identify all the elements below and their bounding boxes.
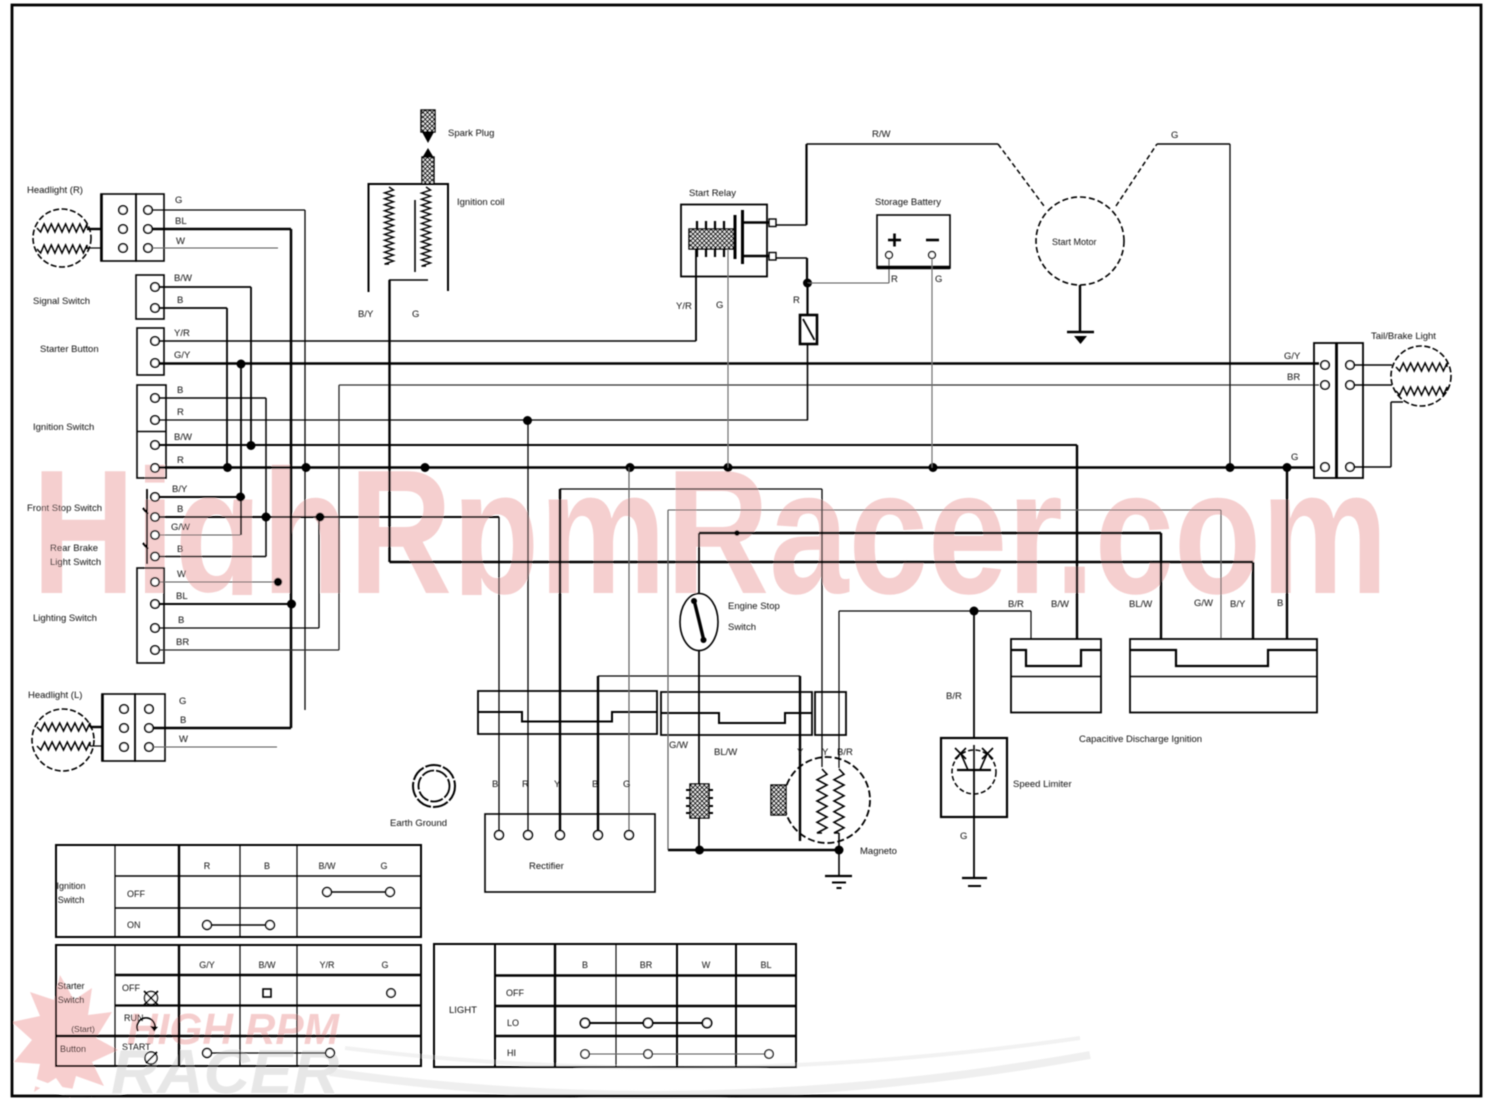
svg-text:R: R xyxy=(891,274,898,285)
wire BL headlight-R xyxy=(152,228,291,231)
ignition switch connector xyxy=(137,385,166,478)
svg-text:Earth Ground: Earth Ground xyxy=(390,818,447,829)
ground bus magneto xyxy=(668,849,839,851)
svg-text:B/W: B/W xyxy=(174,432,192,443)
connector block C xyxy=(815,692,846,735)
svg-text:OFF: OFF xyxy=(122,983,140,993)
svg-text:B: B xyxy=(177,504,183,515)
link ON R-B xyxy=(211,924,266,926)
wire G start motor xyxy=(1157,143,1230,145)
wire R/W start relay to start motor xyxy=(776,224,807,226)
wire tail light right xyxy=(1354,364,1392,366)
svg-text:START: START xyxy=(122,1042,151,1052)
link LO B-BR-W xyxy=(589,1022,703,1024)
svg-text:B/R: B/R xyxy=(946,691,962,702)
svg-text:Ignition Switch: Ignition Switch xyxy=(33,422,94,433)
svg-text:B/W: B/W xyxy=(1051,599,1069,610)
connector headlight (R) xyxy=(101,194,136,261)
svg-text:B: B xyxy=(177,295,183,306)
connector block A xyxy=(478,691,657,734)
ignition coil secondary terminal xyxy=(422,148,434,158)
svg-text:G: G xyxy=(623,779,630,790)
svg-text:B: B xyxy=(180,715,186,726)
svg-text:Storage Battery: Storage Battery xyxy=(875,197,941,208)
table starter switch xyxy=(56,945,421,1066)
svg-text:BL/W: BL/W xyxy=(714,747,737,758)
svg-text:W: W xyxy=(702,960,711,970)
table ignition switch xyxy=(56,845,421,937)
svg-text:B/Y: B/Y xyxy=(358,309,374,320)
svg-text:R: R xyxy=(177,407,184,418)
starter switch START pictogram xyxy=(145,1052,157,1064)
tail light lamp xyxy=(1391,346,1451,406)
connector headlight (L) xyxy=(102,694,135,761)
wire B rectifier to magneto xyxy=(597,676,599,831)
svg-text:B: B xyxy=(492,779,498,790)
svg-text:Rectifier: Rectifier xyxy=(529,861,564,872)
svg-text:G/Y: G/Y xyxy=(1284,351,1301,362)
wire G battery to G bus xyxy=(931,259,933,468)
wire W headlight-R xyxy=(152,247,278,249)
capacitive discharge ignition connector 2 xyxy=(1130,639,1317,713)
svg-text:B/W: B/W xyxy=(319,861,337,871)
svg-text:Rear Brake: Rear Brake xyxy=(50,543,98,554)
headlight (R) lamp xyxy=(33,209,91,267)
svg-text:BL: BL xyxy=(176,591,188,602)
wire Y rectifier to magneto xyxy=(559,489,561,831)
svg-text:B/R: B/R xyxy=(1008,599,1024,610)
svg-text:B/W: B/W xyxy=(259,960,277,970)
wire engine stop to magneto source coil xyxy=(698,651,700,785)
svg-text:G/W: G/W xyxy=(171,522,190,533)
starter button connector xyxy=(137,328,164,375)
wire G/W to CDI xyxy=(667,510,669,850)
wire headlight L to connector xyxy=(90,726,102,728)
wire G speed limiter xyxy=(973,817,975,878)
fuse R xyxy=(806,283,808,315)
wire B front stop to rectifier xyxy=(159,516,499,518)
wire G/W front stop xyxy=(159,534,241,536)
link START G/Y-Y/R xyxy=(211,1052,326,1054)
start motor xyxy=(1036,197,1124,285)
svg-text:G/Y: G/Y xyxy=(199,960,215,970)
spark plug xyxy=(421,110,435,132)
svg-text:ON: ON xyxy=(127,920,141,930)
wire Y/R to start relay xyxy=(159,340,696,342)
svg-text:Switch: Switch xyxy=(728,622,756,633)
svg-text:R: R xyxy=(177,455,184,466)
svg-text:B: B xyxy=(178,615,184,626)
svg-text:Starter: Starter xyxy=(57,981,84,991)
wire G relay coil lead xyxy=(727,249,729,468)
wire G rectifier to G bus xyxy=(628,468,630,831)
tail light connector xyxy=(1314,343,1336,478)
svg-text:G/W: G/W xyxy=(669,740,688,751)
starter switch RUN pictogram xyxy=(137,1018,155,1031)
starter switch OFF pictogram xyxy=(145,992,158,1005)
signal switch connector xyxy=(136,275,164,319)
watermark HighRpmRacer.com xyxy=(32,433,1388,631)
wire B front-stop to rectifier xyxy=(498,517,500,831)
svg-text:B: B xyxy=(177,544,183,555)
capacitive discharge ignition connector 1 xyxy=(1011,639,1101,713)
svg-text:Start Relay: Start Relay xyxy=(689,188,736,199)
svg-text:Capacitive Discharge Ignition: Capacitive Discharge Ignition xyxy=(1079,734,1202,745)
svg-text:Start Motor: Start Motor xyxy=(1052,237,1097,247)
svg-text:B: B xyxy=(592,779,598,790)
svg-text:W: W xyxy=(177,569,186,580)
svg-text:Button: Button xyxy=(60,1044,86,1054)
svg-text:Y/R: Y/R xyxy=(676,301,692,312)
wire B/R magneto to CDI xyxy=(838,611,840,768)
svg-text:Ignition coil: Ignition coil xyxy=(457,197,505,208)
wire B signal switch xyxy=(159,307,227,309)
svg-text:G: G xyxy=(1291,452,1298,463)
svg-text:R: R xyxy=(793,295,800,306)
svg-text:OFF: OFF xyxy=(506,988,524,998)
svg-text:BL: BL xyxy=(175,216,187,227)
starter switch OFF marks xyxy=(263,989,271,997)
speed limiter xyxy=(941,738,1007,817)
magneto source coil BL/W xyxy=(690,784,709,818)
magneto xyxy=(784,757,870,843)
svg-text:G/Y: G/Y xyxy=(174,350,191,361)
svg-text:Starter Button: Starter Button xyxy=(40,344,99,355)
wire B/R to speed limiter xyxy=(973,611,975,738)
wire B/W signal switch xyxy=(159,286,251,288)
svg-text:Signal Switch: Signal Switch xyxy=(33,296,90,307)
svg-text:G: G xyxy=(380,861,387,871)
wire B/Y ignition coil primary to CDI xyxy=(388,280,390,562)
svg-text:Tail/Brake Light: Tail/Brake Light xyxy=(1371,331,1436,342)
wire BL/W engine stop to CDI xyxy=(698,533,700,594)
wire G bus xyxy=(159,466,1315,468)
svg-text:G: G xyxy=(716,300,723,311)
svg-text:G: G xyxy=(935,274,942,285)
earth ground xyxy=(413,765,455,807)
svg-text:BR: BR xyxy=(176,637,189,648)
svg-text:W: W xyxy=(179,734,188,745)
svg-text:Headlight (R): Headlight (R) xyxy=(27,185,83,196)
svg-text:Magneto: Magneto xyxy=(860,846,897,857)
watermark swoosh xyxy=(330,1055,1090,1095)
svg-text:G/W: G/W xyxy=(1194,598,1213,609)
headlight (L) lamp xyxy=(32,709,94,771)
wire B/Y front stop xyxy=(159,496,241,498)
svg-text:RUN: RUN xyxy=(124,1013,144,1023)
wire B rear brake xyxy=(159,556,266,558)
wire start relay output to battery xyxy=(776,257,807,259)
svg-text:Switch: Switch xyxy=(58,895,85,905)
svg-text:BL/W: BL/W xyxy=(1129,599,1152,610)
svg-text:Front Stop Switch: Front Stop Switch xyxy=(27,503,102,514)
storage battery xyxy=(877,215,950,268)
svg-text:LIGHT: LIGHT xyxy=(449,1005,477,1016)
svg-text:Ignition: Ignition xyxy=(56,881,85,891)
svg-text:Y/R: Y/R xyxy=(319,960,335,970)
svg-text:(Start): (Start) xyxy=(71,1024,95,1034)
svg-text:R/W: R/W xyxy=(872,129,891,140)
ground start motor xyxy=(1079,285,1081,332)
svg-text:Spark Plug: Spark Plug xyxy=(448,128,494,139)
svg-text:BR: BR xyxy=(1287,372,1300,383)
connector block B xyxy=(661,692,812,735)
wire headlight R to connector xyxy=(87,228,101,230)
svg-text:B/Y: B/Y xyxy=(1230,599,1246,610)
svg-text:HI: HI xyxy=(507,1048,516,1058)
wire R line to fuse xyxy=(159,419,808,421)
wire Y/R relay coil lead xyxy=(695,249,697,341)
lighting switch connector xyxy=(137,568,164,663)
svg-text:Y: Y xyxy=(822,747,829,758)
svg-text:B/Y: B/Y xyxy=(172,484,188,495)
svg-text:B: B xyxy=(264,861,270,871)
svg-text:Speed Limiter: Speed Limiter xyxy=(1013,779,1072,790)
svg-text:BL: BL xyxy=(760,960,771,970)
svg-text:G: G xyxy=(1171,130,1178,141)
svg-text:B: B xyxy=(1277,598,1283,609)
wire W lighting switch xyxy=(159,581,278,583)
wire ignition B to front stop B xyxy=(159,397,266,399)
wire G headlight-R xyxy=(152,209,305,211)
svg-text:Y: Y xyxy=(554,779,561,790)
svg-text:G: G xyxy=(381,960,388,970)
wire R fuse to ignition switch xyxy=(807,344,809,420)
wire G/Y bus xyxy=(159,362,1319,365)
svg-text:LO: LO xyxy=(507,1018,519,1028)
wire B lighting switch xyxy=(159,627,319,629)
table light xyxy=(434,944,796,1067)
wire B headlight-L xyxy=(153,727,291,730)
start relay xyxy=(681,205,767,277)
wire BL lighting switch xyxy=(159,603,292,605)
svg-text:B: B xyxy=(582,960,588,970)
svg-text:Lighting Switch: Lighting Switch xyxy=(33,613,97,624)
rectifier xyxy=(485,814,655,892)
svg-text:Headlight (L): Headlight (L) xyxy=(28,690,82,701)
wire B/W bus to CDI xyxy=(159,444,1077,446)
wire R rectifier xyxy=(527,421,529,831)
wire W headlight-L xyxy=(153,746,277,748)
svg-text:W: W xyxy=(176,236,185,247)
svg-text:OFF: OFF xyxy=(127,889,145,899)
link OFF B/W-G xyxy=(330,891,386,893)
watermark logo leaf xyxy=(12,975,118,1098)
svg-text:BR: BR xyxy=(640,960,653,970)
svg-text:B/W: B/W xyxy=(174,273,192,284)
svg-text:R: R xyxy=(522,779,529,790)
link HI B-BR-BL xyxy=(589,1053,765,1055)
svg-text:G: G xyxy=(412,309,419,320)
svg-text:Y: Y xyxy=(797,747,804,758)
svg-text:G: G xyxy=(960,831,967,842)
svg-text:G: G xyxy=(175,195,182,206)
svg-text:G: G xyxy=(179,696,186,707)
svg-text:Switch: Switch xyxy=(58,995,85,1005)
ignition coil xyxy=(369,184,449,292)
svg-text:Light Switch: Light Switch xyxy=(50,557,101,568)
svg-text:R: R xyxy=(204,861,211,871)
svg-text:Engine Stop: Engine Stop xyxy=(728,601,780,612)
wire BR lighting switch to tail light xyxy=(159,649,339,651)
engine stop switch xyxy=(680,594,718,651)
wire B to CDI xyxy=(1286,468,1288,640)
ground magneto xyxy=(825,875,852,877)
wire G/Y drop to front stop switch xyxy=(240,364,242,535)
svg-text:Y/R: Y/R xyxy=(174,328,190,339)
ground speed limiter xyxy=(962,877,987,879)
svg-text:B: B xyxy=(177,385,183,396)
wire B/R to CDI xyxy=(974,610,1031,612)
front stop switch bracket xyxy=(146,489,148,564)
magneto pickup coil xyxy=(771,785,786,815)
